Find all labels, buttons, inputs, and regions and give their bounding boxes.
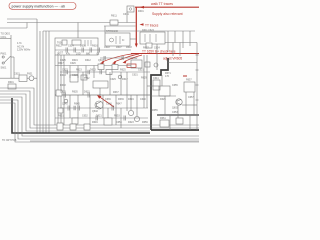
wire drop x127 xyxy=(126,72,128,111)
wire drop x108b xyxy=(107,108,109,118)
red trace line down from D-rail xyxy=(135,7,138,48)
svg-text:D613: D613 xyxy=(90,69,96,72)
svg-text:R629: R629 xyxy=(141,77,147,80)
wire right top y62 xyxy=(168,62,197,64)
svg-text:C657: C657 xyxy=(188,96,194,99)
secondary rail row xyxy=(55,65,131,67)
wire from switch xyxy=(11,56,15,58)
bus component box 2 xyxy=(70,124,76,130)
annotation bubble: power supply malfunction xyxy=(9,3,76,10)
wire drop to control block xyxy=(77,23,79,39)
wire row y96 right xyxy=(151,95,176,97)
mid vertical bus d xyxy=(45,31,47,133)
vertical pair mid-right 1 xyxy=(143,55,145,108)
svg-text:D623: D623 xyxy=(128,121,134,124)
wire top rail upper xyxy=(7,18,37,20)
svg-text:C628: C628 xyxy=(72,74,78,77)
svg-text:C631: C631 xyxy=(138,69,144,72)
lower rail y108 xyxy=(60,107,148,109)
heavy ground trace right xyxy=(151,58,168,130)
capacitor ticks on rail xyxy=(66,48,100,53)
svg-text:IC602: IC602 xyxy=(131,57,138,60)
svg-text:C641: C641 xyxy=(153,77,159,80)
red check arrow 3 xyxy=(123,55,143,64)
wire T602 drop xyxy=(99,88,101,95)
transistor Q602 xyxy=(95,101,103,109)
wire sec drop 4 xyxy=(189,31,191,46)
heavy ground bottom right xyxy=(151,129,199,131)
winding bus 4 xyxy=(63,55,65,125)
cap pair 6 xyxy=(88,93,90,98)
wire right x180 xyxy=(179,43,181,57)
resistor R642 xyxy=(104,118,112,125)
svg-text:4.7k: 4.7k xyxy=(17,42,22,45)
wire right x173 xyxy=(172,43,174,57)
wire drop x121 xyxy=(120,72,122,95)
note: TT traces xyxy=(140,23,159,27)
svg-text:R617: R617 xyxy=(58,62,64,65)
photocoupler circle xyxy=(154,63,158,67)
svg-text:R653: R653 xyxy=(114,115,120,118)
wire component rail xyxy=(55,49,131,51)
regulator IC601 box xyxy=(105,30,130,46)
resistor R621 xyxy=(98,64,104,70)
svg-text:C640: C640 xyxy=(140,98,146,101)
svg-text:D605: D605 xyxy=(80,45,86,48)
svg-text:R655: R655 xyxy=(152,109,158,112)
svg-text:R661: R661 xyxy=(160,117,166,120)
label row y85 mid xyxy=(60,78,128,94)
label row right y100 xyxy=(160,96,194,101)
svg-text:STR30130: STR30130 xyxy=(106,30,119,33)
bus component box 1 xyxy=(57,123,63,130)
wire drop x78b xyxy=(77,95,79,118)
svg-text:C653: C653 xyxy=(172,111,178,114)
bottom rail y141 xyxy=(30,140,199,142)
svg-text:R612: R612 xyxy=(56,45,62,48)
svg-text:D625: D625 xyxy=(160,98,166,101)
svg-text:C614: C614 xyxy=(68,45,74,48)
cap pair 3 xyxy=(112,106,114,111)
svg-text:D601: D601 xyxy=(138,10,144,13)
wire outer rect left edge xyxy=(42,31,44,50)
svg-text:R625: R625 xyxy=(120,69,126,72)
svg-text:C626: C626 xyxy=(70,62,76,65)
wire stub top right of IC xyxy=(130,38,136,40)
svg-text:R639: R639 xyxy=(118,98,124,101)
svg-text:D611 C622: D611 C622 xyxy=(142,29,155,32)
power switch S601 xyxy=(4,56,10,62)
svg-text:adjust VR605: adjust VR605 xyxy=(163,57,182,61)
svg-text:R601: R601 xyxy=(8,81,14,84)
cap pair 4 xyxy=(124,116,126,121)
label row y123 mid xyxy=(92,121,148,124)
resistor R641 xyxy=(72,118,78,124)
IC602 box xyxy=(131,57,142,68)
snubber rect D-block xyxy=(140,32,165,44)
line filter L601 xyxy=(19,75,27,81)
svg-text:C646: C646 xyxy=(106,103,112,106)
resistor R632 xyxy=(81,75,87,80)
wire top rail xyxy=(7,22,136,24)
circle D618 xyxy=(118,75,122,79)
svg-text:Q603: Q603 xyxy=(172,107,179,110)
svg-text:D619: D619 xyxy=(128,98,134,101)
resistor R611 xyxy=(110,13,129,25)
junction dot xyxy=(99,94,101,96)
svg-text:R659: R659 xyxy=(142,121,148,124)
svg-text:R657: R657 xyxy=(186,79,192,82)
winding bus 1 xyxy=(54,55,56,125)
regulator box right 2 xyxy=(184,82,195,92)
heavy ground trace left xyxy=(12,98,150,133)
wire drop x90b xyxy=(89,95,91,125)
wire right x157 xyxy=(156,44,158,70)
diode tick on y58 xyxy=(104,56,123,60)
wire right x178b xyxy=(177,105,179,118)
wire row y86 right xyxy=(147,85,159,87)
svg-text:D621: D621 xyxy=(96,115,102,118)
wire right x190b xyxy=(189,115,191,130)
transistor Q605 xyxy=(134,116,139,121)
wire sec drop 3 xyxy=(182,31,184,48)
wire right x162 xyxy=(161,75,163,86)
resistor R601 xyxy=(8,81,16,89)
wire sec drop 1 xyxy=(167,31,169,52)
wire drop x116 xyxy=(115,95,117,125)
wire stub y58 xyxy=(100,57,131,59)
wire right x170b xyxy=(169,115,171,130)
resistor R662 xyxy=(176,118,183,124)
wire vertical switch drop xyxy=(13,57,15,78)
cap pair 5 xyxy=(96,116,98,121)
label row y104 xyxy=(62,103,122,106)
svg-text:TO CRT PCB: TO CRT PCB xyxy=(2,139,17,142)
svg-text:C639: C639 xyxy=(105,98,111,101)
svg-text:Q601: Q601 xyxy=(98,59,105,62)
wire stub y28 xyxy=(0,27,27,29)
resistor R613 xyxy=(72,40,81,45)
svg-text:Supply also relevant: Supply also relevant xyxy=(152,12,183,16)
svg-text:C615: C615 xyxy=(14,73,20,76)
wire mid rail y95 xyxy=(55,94,150,96)
lower rail y118 xyxy=(55,117,148,119)
fuse rail xyxy=(0,77,37,79)
harness wire 5 xyxy=(0,100,199,139)
svg-text:Q602: Q602 xyxy=(92,110,99,113)
cap ticks on y72 rail xyxy=(66,70,101,74)
svg-text:C645: C645 xyxy=(62,103,68,106)
wire vertical from degauss xyxy=(10,35,12,78)
resistor R631 xyxy=(145,62,150,67)
pin ticks xyxy=(85,40,91,46)
diode D615 tick xyxy=(74,106,75,110)
svg-text:R651: R651 xyxy=(58,115,64,118)
wire drop right b xyxy=(193,92,195,115)
winding bus 3 xyxy=(60,55,62,125)
wire drop into IC xyxy=(104,26,106,33)
label row y75 mid xyxy=(60,74,78,77)
winding box inside xyxy=(62,40,67,45)
label row y99 mid xyxy=(105,98,146,101)
diode ticks inside xyxy=(145,34,156,42)
arrow to B+ rail xyxy=(135,6,199,9)
svg-text:D607: D607 xyxy=(116,46,122,49)
svg-text:S601: S601 xyxy=(1,67,7,70)
mid vertical bus c xyxy=(42,50,44,133)
svg-text:R635: R635 xyxy=(72,91,78,94)
svg-text:P601: P601 xyxy=(1,53,7,56)
regulator box right 1 xyxy=(159,86,170,96)
svg-text:power supply malfunction —→ah: power supply malfunction —→ah xyxy=(12,5,66,9)
svg-text:C655: C655 xyxy=(172,84,178,87)
label row y116 xyxy=(58,115,120,118)
transistor Q604 xyxy=(128,110,133,115)
harness wire 4 xyxy=(0,97,199,136)
chopper transformer box T602 xyxy=(93,81,108,88)
diode D601 top xyxy=(127,6,144,23)
svg-text:2SD: 2SD xyxy=(76,53,81,56)
vertical pair mid-right 2 xyxy=(146,55,148,108)
wire drop x137b xyxy=(136,95,138,116)
value row under rail xyxy=(57,53,100,56)
svg-text:170: 170 xyxy=(165,75,170,78)
wire degauss stub xyxy=(0,38,11,40)
right edge connector xyxy=(196,43,199,131)
wire second rail xyxy=(43,30,195,32)
svg-text:R649: R649 xyxy=(92,121,98,124)
svg-text:R623: R623 xyxy=(76,69,82,72)
wire row y105 right xyxy=(182,104,197,106)
mid vertical bus e xyxy=(48,31,50,133)
svg-text:R618: R618 xyxy=(126,46,132,49)
drop d3 xyxy=(85,66,87,79)
red B+ rail highlight xyxy=(131,53,199,55)
svg-text:47u: 47u xyxy=(66,53,71,56)
svg-text:R637: R637 xyxy=(113,91,119,94)
harness wire 3 xyxy=(0,94,150,131)
svg-text:120V 60Hz: 120V 60Hz xyxy=(17,48,31,52)
svg-text:C618: C618 xyxy=(104,46,110,49)
svg-text:R647: R647 xyxy=(116,103,122,106)
red tick right mid xyxy=(183,75,187,77)
svg-text:C631: C631 xyxy=(132,74,138,77)
small box lower left c xyxy=(58,108,63,113)
mid vertical bus b xyxy=(39,31,41,133)
wire secondary rail xyxy=(165,42,197,44)
harness wire 2 xyxy=(0,91,199,128)
wire drop right a xyxy=(185,92,187,115)
svg-text:TT 165V B+ check here: TT 165V B+ check here xyxy=(142,50,176,54)
component label row upper xyxy=(56,45,132,50)
wire drop x70b xyxy=(69,95,71,118)
red mark on R625 xyxy=(127,64,136,67)
small circle lower left b xyxy=(64,99,68,103)
winding bus 2 xyxy=(57,55,59,125)
red fault arrow to T602 xyxy=(97,95,114,107)
harness wire 1 xyxy=(0,88,199,125)
harness wire 6 xyxy=(0,103,199,142)
right lower boxes xyxy=(160,117,169,127)
label row mid xyxy=(60,59,105,62)
transistor Q603 xyxy=(176,99,182,105)
resistor R622 xyxy=(112,65,118,70)
svg-text:D617: D617 xyxy=(122,78,128,81)
wire sec drop 2 xyxy=(174,31,176,43)
label row right y80 xyxy=(172,79,192,88)
drop d4 xyxy=(93,66,95,79)
control block T601 frame xyxy=(55,38,98,55)
svg-text:T602: T602 xyxy=(84,77,90,80)
mid vertical bus a xyxy=(36,19,38,133)
cap pair 2 xyxy=(78,106,80,111)
red check arrow 1 xyxy=(100,54,136,65)
wire drop x103 xyxy=(102,95,104,118)
svg-text:walk TT traces: walk TT traces xyxy=(151,2,173,6)
wire drop x121b xyxy=(120,108,122,128)
wire top rail lower xyxy=(104,25,136,27)
svg-text:C629: C629 xyxy=(110,78,116,81)
svg-text:IC: IC xyxy=(122,39,125,42)
red check arrow 2 xyxy=(112,54,139,64)
label row right y47 xyxy=(143,47,160,50)
drop d2 xyxy=(77,66,79,79)
wire top rail left drop xyxy=(26,23,28,29)
label row y92 left xyxy=(60,91,90,94)
svg-text:C652: C652 xyxy=(82,115,88,118)
label row y70 xyxy=(62,69,144,72)
svg-text:R633: R633 xyxy=(60,84,66,87)
wire drop x131b xyxy=(130,95,132,110)
svg-text:TT traces: TT traces xyxy=(145,23,159,27)
drop d1 xyxy=(69,66,71,79)
cap pair 1 xyxy=(68,106,70,111)
resistor R624 on y72 xyxy=(106,70,112,75)
svg-text:F601: F601 xyxy=(27,73,33,76)
wire right x165b xyxy=(164,96,166,115)
svg-text:R627: R627 xyxy=(143,47,149,50)
svg-text:R645: R645 xyxy=(74,103,80,106)
wire row y72 xyxy=(60,71,150,73)
svg-text:D612: D612 xyxy=(85,59,91,62)
heavy stub right xyxy=(157,114,199,116)
capacitor C641 xyxy=(153,77,160,90)
svg-text:C651: C651 xyxy=(116,121,122,124)
label row y111 right xyxy=(152,109,178,114)
capacitor C630 xyxy=(70,75,78,82)
fuse F601 xyxy=(29,76,34,81)
label row right y75 xyxy=(132,74,147,80)
svg-text:680: 680 xyxy=(86,53,91,56)
label row y63 left xyxy=(58,62,76,65)
small box lower left a xyxy=(56,90,62,96)
svg-text:C611: C611 xyxy=(123,13,129,16)
resistor R626 xyxy=(146,43,152,48)
cap pair 7 xyxy=(64,93,66,98)
svg-text:D614: D614 xyxy=(60,74,66,77)
mains input plug P601 xyxy=(2,56,4,64)
wire drop x110 xyxy=(109,72,111,95)
wire drop x83 xyxy=(82,72,84,95)
svg-text:R616: R616 xyxy=(92,45,98,48)
bus component box 3 xyxy=(84,124,90,130)
svg-text:R611: R611 xyxy=(111,15,117,18)
